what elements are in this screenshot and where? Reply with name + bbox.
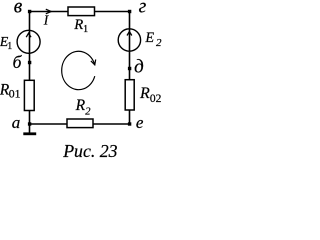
svg-text:R: R xyxy=(139,85,150,102)
current arrow I on top wire xyxy=(46,9,51,14)
resistor R2 xyxy=(67,119,93,128)
svg-text:01: 01 xyxy=(9,86,21,100)
svg-text:2: 2 xyxy=(156,37,162,49)
wire bottom: node а to node е xyxy=(30,123,130,125)
svg-text:E: E xyxy=(144,30,154,46)
svg-text:а: а xyxy=(12,113,21,132)
wire left: node в down to node а xyxy=(29,12,31,125)
loop direction arrow (clockwise) xyxy=(62,51,96,89)
EMF source E1 xyxy=(17,30,40,53)
EMF source E2 xyxy=(118,29,140,51)
svg-text:2: 2 xyxy=(85,106,91,117)
node е junction dot xyxy=(128,122,131,125)
node б junction dot xyxy=(28,61,31,64)
node в junction dot xyxy=(28,10,31,13)
svg-text:д: д xyxy=(134,56,144,77)
svg-text:1: 1 xyxy=(83,24,88,35)
svg-text:г: г xyxy=(139,0,147,17)
node д junction dot xyxy=(128,67,131,70)
svg-text:Рис. 23: Рис. 23 xyxy=(62,141,117,161)
svg-text:1: 1 xyxy=(7,41,12,52)
svg-text:е: е xyxy=(136,113,144,132)
node а junction dot xyxy=(28,122,31,125)
svg-text:в: в xyxy=(14,0,23,18)
resistor R02 xyxy=(125,80,134,110)
resistor R1 xyxy=(68,7,95,16)
ground at node а xyxy=(23,124,36,134)
wire right: node г down to node е xyxy=(129,12,131,125)
node г junction dot xyxy=(128,10,131,13)
wire top: node в to node г xyxy=(30,11,130,13)
svg-text:б: б xyxy=(13,52,23,72)
svg-text:R: R xyxy=(73,17,83,33)
svg-text:02: 02 xyxy=(150,93,162,105)
resistor R01 xyxy=(24,80,34,110)
svg-text:R: R xyxy=(75,97,86,114)
